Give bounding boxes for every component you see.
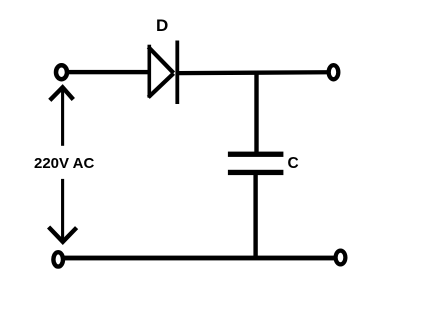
source arrow: 220V AC double-headed arrow — [49, 87, 77, 242]
wire: capacitor C bottom plate to bottom wire — [253, 175, 257, 257]
svg-text:C: C — [288, 155, 299, 172]
terminal top-right — [329, 65, 339, 79]
diode D — [148, 41, 177, 105]
capacitor C — [228, 152, 284, 176]
svg-text:D: D — [156, 16, 168, 35]
svg-text:220V AC: 220V AC — [34, 155, 94, 172]
wire: top-left terminal to diode D anode — [67, 70, 150, 74]
terminal top-left — [56, 65, 67, 79]
terminal bottom-right — [336, 251, 346, 265]
terminal bottom-left — [53, 252, 63, 266]
wire: bottom-left terminal to bottom-right terminal — [63, 256, 335, 261]
wire: diode D cathode to top-right terminal — [179, 70, 328, 75]
wire: top node to capacitor C top plate — [254, 73, 258, 153]
